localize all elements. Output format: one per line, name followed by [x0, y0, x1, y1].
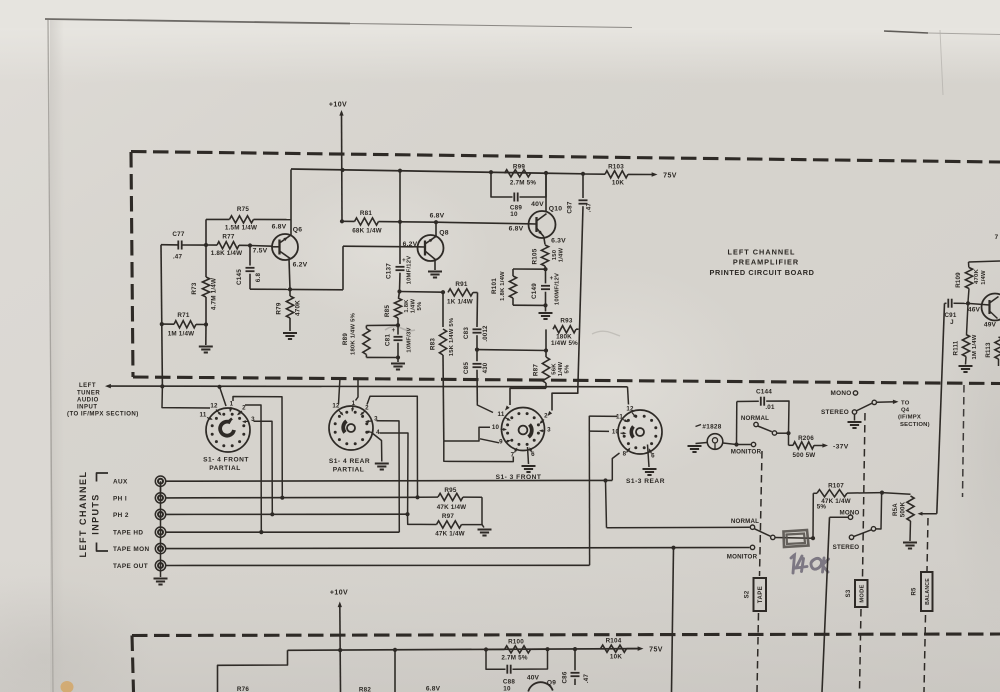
svg-text:.0012: .0012 — [482, 325, 489, 342]
resistor R105 — [544, 237, 545, 245]
wire riser x343 — [342, 246, 344, 290]
svg-text:TO: TO — [901, 400, 910, 406]
capacitor C88 — [507, 665, 510, 674]
svg-text:7: 7 — [995, 234, 999, 241]
wire R75-R77 left riser — [205, 219, 207, 245]
svg-text:R82: R82 — [359, 686, 371, 692]
svg-text:PH 2: PH 2 — [113, 512, 129, 519]
svg-text:6: 6 — [531, 451, 535, 458]
capacitor C149 — [545, 269, 547, 283]
svg-text:.47: .47 — [173, 254, 183, 261]
svg-text:S1- 4 FRONT: S1- 4 FRONT — [203, 457, 249, 464]
wire lamp to ground — [696, 443, 708, 444]
ground input bus — [154, 579, 168, 585]
svg-text:MODE: MODE — [860, 584, 866, 602]
wire aux to normal riser — [606, 481, 607, 528]
svg-text:C88: C88 — [503, 679, 515, 686]
faint pencil scribble center — [385, 326, 415, 330]
capacitor C137 — [399, 171, 401, 264]
pin arrow 12 S1-4R — [338, 410, 343, 415]
svg-text:10K: 10K — [610, 654, 622, 661]
svg-text:MONO: MONO — [830, 390, 851, 397]
svg-text:(IF/MPX: (IF/MPX — [898, 415, 921, 421]
dashed line S3 upper — [863, 413, 866, 578]
svg-text:C137: C137 — [386, 263, 393, 279]
svg-text:R71: R71 — [177, 312, 189, 319]
contact STEREO lower — [849, 535, 853, 539]
svg-text:TAPE OUT: TAPE OUT — [113, 563, 148, 570]
svg-text:PH I: PH I — [113, 495, 127, 502]
resistor R95 — [418, 496, 439, 498]
svg-text:1.5M 1/4W: 1.5M 1/4W — [225, 225, 257, 232]
svg-text:40V: 40V — [531, 201, 544, 208]
svg-text:SECTION): SECTION) — [900, 422, 930, 428]
ground Q8 — [428, 272, 442, 278]
svg-text:.47: .47 — [583, 674, 590, 684]
wire C144 top right — [766, 401, 789, 433]
wire TAPE HD line — [166, 531, 400, 533]
rotor S1-4 FRONT — [220, 422, 234, 436]
svg-text:R103: R103 — [608, 164, 624, 171]
svg-text:R89: R89 — [342, 333, 349, 345]
capacitor C85 — [476, 350, 478, 362]
resistor R85 — [399, 292, 400, 299]
pin arrow 12 S1-4F — [216, 410, 221, 415]
capacitor C144 — [761, 397, 764, 406]
wire C144 left riser — [736, 402, 738, 445]
svg-text:R85: R85 — [384, 305, 391, 317]
svg-text:S1- 4 REAR: S1- 4 REAR — [329, 458, 370, 465]
top box dashed bottom edge — [133, 377, 1000, 384]
resistor R111 — [967, 303, 969, 334]
junction C86 top — [573, 647, 577, 651]
svg-text:TUNER: TUNER — [77, 391, 100, 397]
wire Q10 collector — [545, 173, 547, 211]
junction R71 left — [160, 322, 164, 326]
resistor R87 — [545, 351, 547, 358]
wire monitor drop — [672, 548, 674, 692]
resistor R206 — [788, 433, 790, 445]
wire PH2 line — [166, 513, 408, 515]
capacitor C87 — [582, 174, 584, 198]
svg-text:+: + — [550, 276, 554, 282]
svg-text:11: 11 — [200, 412, 207, 419]
wire R95 to R97 — [481, 497, 483, 524]
potentiometer R5A — [907, 496, 914, 521]
wire Q8 emitter — [434, 261, 436, 270]
resistor R77 — [206, 244, 217, 246]
svg-text:PREAMPLIFIER: PREAMPLIFIER — [733, 258, 799, 267]
wire emitter node to riser — [290, 288, 343, 290]
wire C87 to switch — [552, 390, 578, 411]
resistor R79 — [289, 289, 291, 296]
junction bottom rail +10V — [338, 648, 342, 652]
input bracket bottom — [97, 543, 109, 552]
svg-text:R113: R113 — [985, 342, 992, 358]
resistor R81 — [342, 220, 355, 222]
junction R85 bottom — [396, 323, 400, 327]
wire Q8 collector — [435, 222, 437, 236]
svg-text:5%: 5% — [817, 504, 827, 511]
paper mottling highlights — [460, 265, 760, 485]
svg-text:TAPE: TAPE — [758, 586, 764, 604]
svg-text:47K 1/4W: 47K 1/4W — [435, 531, 465, 538]
junction R107 riser — [811, 536, 815, 540]
wire C144 top left — [737, 400, 759, 402]
control label R5 BALANCE — [921, 572, 933, 611]
rotor S1-3 FRONT — [519, 426, 528, 435]
svg-text:C86: C86 — [562, 671, 569, 683]
wire input bus top — [160, 481, 162, 493]
wire bottom rail left elbow — [218, 650, 288, 692]
svg-text:1/4W: 1/4W — [411, 298, 417, 313]
svg-text:Q10: Q10 — [549, 205, 562, 212]
wire S1-4R p1 riser — [356, 378, 359, 401]
contact pole lower — [871, 527, 875, 531]
svg-text:6.8V: 6.8V — [426, 686, 441, 692]
svg-text:R93: R93 — [560, 317, 572, 324]
svg-text:2: 2 — [544, 413, 548, 420]
svg-text:1.8K 1/4W: 1.8K 1/4W — [500, 271, 506, 301]
resistor R104 — [601, 645, 627, 652]
svg-text:470K: 470K — [295, 300, 302, 316]
svg-text:+10V: +10V — [329, 102, 347, 109]
wiper R5A — [920, 513, 937, 515]
svg-text:R79: R79 — [276, 302, 283, 314]
wire R91 left — [400, 291, 444, 294]
orange stain bottom left — [61, 681, 74, 692]
svg-text:MONITOR: MONITOR — [727, 554, 758, 561]
svg-text:TAPE MON: TAPE MON — [113, 546, 149, 553]
junction Q8 collector node — [434, 220, 438, 224]
wire bottom drop x395 — [394, 650, 396, 692]
svg-text:1/4W: 1/4W — [558, 361, 564, 376]
arrow 75V bottom — [638, 646, 644, 651]
junction AUX monitor riser — [603, 478, 607, 482]
svg-text:75V: 75V — [663, 172, 677, 179]
contact blade mode — [872, 400, 876, 404]
wire p10 to riser — [589, 430, 609, 432]
svg-text:2.7M 5%: 2.7M 5% — [501, 655, 527, 662]
junction R79 top — [288, 287, 292, 291]
svg-text:R99: R99 — [513, 164, 525, 171]
svg-text:C77: C77 — [172, 231, 184, 238]
svg-text:46V: 46V — [968, 307, 981, 314]
svg-text:10: 10 — [492, 424, 500, 431]
svg-text:12: 12 — [210, 403, 218, 410]
terminal PH1 — [155, 493, 165, 503]
wire bottom rail — [288, 649, 641, 651]
wire mono drop — [830, 516, 849, 518]
svg-text:PRINTED CIRCUIT BOARD: PRINTED CIRCUIT BOARD — [709, 268, 814, 277]
junction R87 top — [544, 348, 548, 352]
switch blade lower mode — [854, 530, 872, 537]
wire blade to R206 node — [777, 432, 789, 434]
svg-text:1: 1 — [352, 400, 356, 407]
junction R83 top — [441, 290, 445, 294]
pin arrow 4 S1-4R — [367, 432, 373, 433]
svg-text:470K: 470K — [974, 269, 980, 284]
svg-text:9: 9 — [499, 439, 503, 446]
svg-text:10MF/3V: 10MF/3V — [407, 327, 413, 352]
wire monitor contact — [737, 444, 751, 446]
pin arrow 6 S1-3R — [650, 450, 652, 454]
junction tuner-left riser — [160, 384, 164, 388]
paper shading gradients — [0, 0, 50, 692]
capacitor C83 — [476, 293, 479, 328]
svg-text:R91: R91 — [455, 281, 467, 288]
ground C81 — [397, 358, 399, 363]
wire C85 to R87 node — [477, 349, 546, 352]
pin arrow 8 S1-3R — [627, 449, 630, 453]
svg-text:INPUTS: INPUTS — [91, 493, 101, 534]
svg-text:6.8V: 6.8V — [509, 226, 524, 233]
wire S1-4R p12 riser — [339, 378, 341, 405]
wire PH1 line — [166, 496, 418, 499]
transistor Q9 partial — [528, 682, 553, 691]
junction R95 left — [415, 495, 419, 499]
lamp #1828 — [707, 434, 723, 450]
svg-text:S3: S3 — [846, 589, 852, 597]
dashed line S2 lower — [757, 613, 759, 692]
wire R83 riser bottom — [444, 441, 514, 462]
+10V arrow top — [339, 110, 343, 116]
svg-text:1/4W 5%: 1/4W 5% — [551, 340, 578, 347]
resistor R107 — [813, 492, 817, 494]
junction TAPEMON drop — [671, 546, 675, 550]
svg-text:S2: S2 — [745, 590, 751, 598]
svg-text:6.2V: 6.2V — [293, 262, 308, 269]
wire TAPE OUT line — [166, 564, 590, 566]
handwritten 140K purple — [791, 555, 829, 573]
svg-text:C91: C91 — [945, 312, 957, 319]
junction rail Q10 collector — [544, 171, 548, 175]
svg-text:Q6: Q6 — [293, 227, 302, 234]
svg-text:6.8: 6.8 — [255, 273, 262, 283]
paper edge line top right — [884, 31, 928, 33]
pin arrow 2 S1-4R — [361, 411, 365, 414]
terminal TAPE HD — [155, 527, 165, 537]
svg-text:1K 1/4W: 1K 1/4W — [447, 298, 473, 305]
junction R77 right node — [248, 243, 252, 247]
svg-text:15K 1/4W 5%: 15K 1/4W 5% — [449, 317, 455, 356]
wire riser to S1-4F p12 — [220, 387, 227, 406]
svg-text:STEREO: STEREO — [821, 409, 849, 416]
svg-text:R83: R83 — [430, 338, 437, 350]
dashed shaft line right of S1-3 — [963, 385, 965, 497]
svg-text:6.2V: 6.2V — [403, 241, 418, 248]
pin arrow 9 S1-3F — [505, 441, 510, 443]
svg-text:R73: R73 — [191, 282, 198, 294]
faint vertical crease right — [940, 30, 943, 95]
wire normal feed — [607, 526, 750, 528]
svg-text:11: 11 — [498, 411, 505, 418]
svg-text:C149: C149 — [531, 283, 538, 299]
resistor R93 — [545, 329, 547, 350]
svg-text:C85: C85 — [463, 362, 470, 374]
junction +10V rail — [340, 168, 344, 172]
wire Q8 base feed — [343, 245, 418, 248]
wire rail stub right — [969, 261, 1000, 262]
wire tuner line — [108, 385, 628, 388]
svg-text:MONITOR: MONITOR — [731, 449, 762, 456]
input bracket top — [97, 473, 109, 482]
svg-text:2.7M 5%: 2.7M 5% — [510, 180, 536, 187]
svg-text:430: 430 — [482, 362, 489, 373]
contact STEREO upper — [852, 410, 856, 414]
contact MONITOR upper — [751, 442, 755, 446]
svg-text:NORMAL: NORMAL — [731, 518, 759, 525]
arrow TO Q4 — [893, 400, 899, 404]
wire left riser elbow — [162, 386, 210, 408]
dashed line R5 upper — [927, 518, 928, 571]
ground stub S1-3R — [648, 445, 650, 468]
wire C85 riser to p11 — [477, 402, 493, 413]
junction rail-221 C137 cross — [398, 220, 402, 224]
svg-text:C87: C87 — [567, 201, 574, 213]
svg-text:STEREO: STEREO — [833, 544, 860, 551]
pin arrow 6 S1-3F — [530, 449, 532, 453]
svg-text:180K 1/4W 5%: 180K 1/4W 5% — [351, 312, 357, 355]
terminal PH2 — [155, 509, 165, 519]
wire tuner end to p12 — [628, 387, 629, 405]
pin arrow 11 S1-4F — [207, 418, 212, 420]
wire input bus — [160, 486, 162, 577]
svg-text:R97: R97 — [442, 513, 454, 520]
svg-text:.47: .47 — [586, 203, 593, 213]
junction C91 node — [966, 301, 970, 305]
capacitor C86 — [574, 649, 576, 670]
wire pole to node — [876, 495, 882, 530]
wire TAPE MON line — [166, 548, 750, 549]
resistor R71 — [162, 323, 174, 325]
ground C149 — [545, 305, 547, 311]
pin arrow 12 S1-3R — [632, 413, 636, 418]
svg-text:#1828: #1828 — [702, 424, 721, 431]
svg-text:R107: R107 — [828, 482, 844, 489]
switch blade lower — [755, 529, 771, 536]
terminal TAPE OUT — [155, 560, 165, 570]
paper edge line top — [45, 19, 350, 24]
junction R206 node — [786, 431, 790, 435]
svg-text:-37V: -37V — [833, 443, 849, 450]
svg-text:+: + — [392, 328, 396, 334]
junction C149 bottom — [543, 303, 547, 307]
svg-text:TAPE HD: TAPE HD — [113, 530, 143, 537]
resistor R100 — [486, 648, 505, 650]
svg-text:3: 3 — [547, 427, 551, 434]
rotor S1-4 REAR — [347, 424, 355, 432]
ground R111 — [959, 366, 973, 372]
svg-text:500 5W: 500 5W — [793, 452, 816, 459]
svg-text:R95: R95 — [444, 487, 456, 494]
wire R107 riser — [812, 493, 814, 538]
svg-text:10: 10 — [503, 686, 511, 692]
junction R100 left — [484, 647, 488, 651]
dashed line S3 lower — [860, 609, 862, 692]
svg-text:C144: C144 — [756, 389, 772, 396]
svg-text:R105: R105 — [532, 248, 539, 264]
wire R97 left — [420, 523, 437, 525]
resistor R113 partial — [995, 337, 1000, 359]
svg-text:1M 1/4W: 1M 1/4W — [972, 334, 978, 359]
ground stub S1-3F — [528, 447, 529, 464]
wire left riser — [161, 245, 162, 387]
junction PH2 riser — [270, 512, 274, 516]
junction R100 right — [545, 647, 549, 651]
junction rail C89 left — [489, 170, 493, 174]
transistor Q8 — [418, 235, 444, 261]
svg-text:150: 150 — [552, 249, 558, 260]
svg-text:+10V: +10V — [330, 590, 348, 597]
junction PH2 R97 — [405, 512, 409, 516]
svg-text:1/4W: 1/4W — [559, 247, 565, 262]
pin arrow 3 S1-3F — [541, 430, 546, 432]
wire C81 loop top — [366, 324, 398, 326]
svg-text:6: 6 — [651, 453, 655, 460]
dashed line S2 upper — [760, 451, 763, 576]
svg-text:56K: 56K — [552, 363, 558, 375]
transistor Q6 — [272, 234, 298, 260]
contact blade lower — [771, 535, 775, 539]
contact MONITOR lower — [750, 545, 754, 549]
switch label S3 MODE — [855, 580, 868, 607]
+10V arrow bottom — [338, 602, 342, 608]
wire +10V rail — [291, 169, 583, 174]
svg-text:C145: C145 — [236, 269, 243, 285]
top box dashed top edge — [131, 152, 1000, 163]
wire lamp to node — [723, 443, 737, 445]
arrow tuner left — [105, 384, 111, 389]
resistor R103 — [583, 173, 605, 175]
svg-text:500K: 500K — [900, 501, 907, 517]
capacitor C91 — [945, 302, 947, 304]
svg-text:1M 1/4W: 1M 1/4W — [168, 331, 195, 338]
svg-text:R81: R81 — [360, 210, 372, 217]
wire node to pot — [882, 493, 911, 495]
svg-text:.01: .01 — [765, 404, 775, 411]
resistor R97 — [408, 514, 421, 524]
junction rail C87 — [581, 172, 585, 176]
svg-text:R101: R101 — [491, 278, 498, 294]
junction R77 left — [204, 243, 208, 247]
resistor R101 — [512, 269, 514, 276]
resistor R89 — [365, 326, 367, 329]
junction C81 bottom — [396, 355, 400, 359]
terminal TAPE MON — [155, 543, 165, 553]
terminal AUX — [155, 476, 165, 486]
junction rail C137 — [398, 169, 402, 173]
wire C91 riser — [937, 303, 945, 513]
junction R73 R71 — [204, 322, 208, 326]
rotary switch S1-3 FRONT — [502, 408, 545, 451]
ground R73 — [205, 325, 207, 346]
bottom box dashed left edge — [132, 636, 134, 692]
wire C145 to R79 node — [250, 288, 290, 290]
wire Q6 emitter — [289, 259, 290, 290]
svg-text:NORMAL: NORMAL — [741, 415, 769, 422]
contact blade upper — [772, 431, 776, 435]
pin arrow 2 S1-3F — [541, 420, 545, 424]
junction C137 bottom — [397, 289, 401, 293]
svg-text:2: 2 — [365, 405, 369, 412]
svg-text:R5: R5 — [912, 587, 918, 596]
capacitor C89 loop wire — [491, 173, 513, 198]
svg-text:R77: R77 — [222, 234, 234, 241]
pin arrow 3 S1-4F — [244, 420, 249, 422]
pin arrow 1 S1-4F — [229, 407, 232, 411]
svg-text:7.5V: 7.5V — [253, 248, 268, 255]
